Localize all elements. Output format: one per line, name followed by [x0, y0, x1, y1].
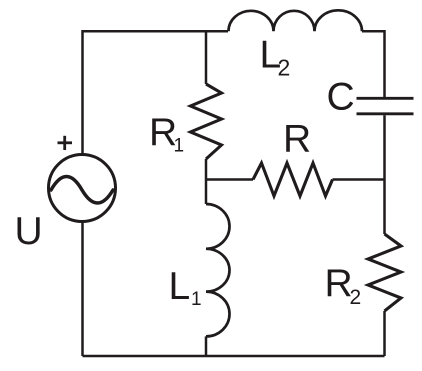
- wire R2 to bottom: [383, 311, 386, 356]
- wire bottom: [83, 355, 385, 358]
- resistor R1: [191, 84, 222, 159]
- wire L1 bottom: [205, 336, 208, 356]
- voltage source U circle: [49, 155, 116, 222]
- wire cap to R2: [383, 115, 386, 234]
- svg-text:U: U: [15, 210, 43, 253]
- wire R to right wire: [333, 178, 385, 181]
- svg-text:C: C: [327, 76, 355, 119]
- svg-text:2: 2: [278, 55, 291, 81]
- wire L2 to right corner: [362, 31, 385, 97]
- resistor R: [253, 163, 333, 196]
- svg-text:R: R: [325, 262, 353, 305]
- inductor L1: [206, 204, 230, 336]
- wire middle branch top: [205, 31, 208, 84]
- capacitor C: [357, 98, 414, 114]
- voltage source sine wave: [51, 177, 113, 204]
- wire left bottom: [81, 222, 84, 357]
- wire left+top run: [83, 31, 229, 154]
- wire R junction horizontal: [206, 178, 253, 181]
- svg-text:1: 1: [174, 136, 185, 157]
- svg-text:R: R: [283, 118, 311, 161]
- inductor L2: [229, 10, 363, 31]
- wire R1 to junction to L1: [205, 159, 208, 204]
- svg-text:2: 2: [350, 286, 362, 309]
- plus polarity mark: [58, 136, 73, 150]
- resistor R2: [368, 234, 401, 311]
- svg-text:L: L: [169, 265, 191, 308]
- svg-text:1: 1: [191, 289, 202, 310]
